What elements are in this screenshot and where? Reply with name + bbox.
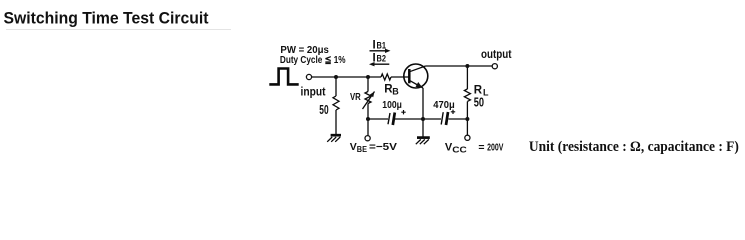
svg-text:50: 50 <box>319 102 328 117</box>
svg-text:CC: CC <box>452 144 467 154</box>
svg-text:100μ: 100μ <box>382 100 402 111</box>
svg-text:output: output <box>481 49 512 61</box>
svg-text:I: I <box>373 52 376 64</box>
svg-text:200V: 200V <box>487 142 503 154</box>
svg-text:=: = <box>478 142 484 154</box>
svg-text:VR: VR <box>350 91 361 103</box>
svg-text:B1: B1 <box>377 41 387 51</box>
svg-text:50: 50 <box>474 94 484 109</box>
svg-text:I: I <box>373 39 376 51</box>
svg-text:V: V <box>350 141 357 153</box>
svg-text:Switching Time Test Circuit: Switching Time Test Circuit <box>4 8 209 27</box>
svg-text:=−5V: =−5V <box>369 141 397 153</box>
svg-text:B2: B2 <box>377 54 387 64</box>
svg-text:470μ: 470μ <box>433 100 454 111</box>
svg-text:Duty Cycle ≦ 1%: Duty Cycle ≦ 1% <box>280 54 346 66</box>
svg-text:input: input <box>301 87 326 99</box>
svg-text:BE: BE <box>357 144 367 154</box>
svg-text:Unit (resistance : Ω, capacita: Unit (resistance : Ω, capacitance : F) <box>529 139 739 155</box>
svg-text:B: B <box>392 86 399 96</box>
